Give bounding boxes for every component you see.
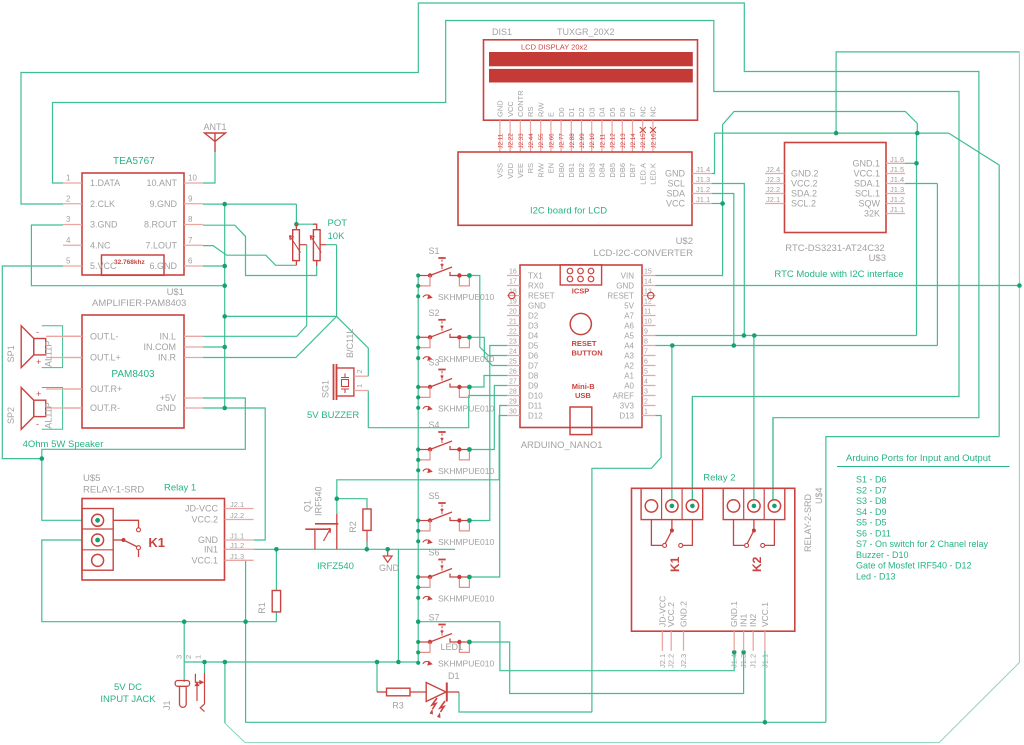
pin 14 LCD stub xyxy=(632,120,634,152)
wire RTC GND.1 link xyxy=(905,162,917,164)
pin SCL I2C board xyxy=(692,183,712,185)
relay2 K1 NO contact xyxy=(683,520,693,546)
pin OUT.R+ PAM8403 xyxy=(63,388,82,390)
svg-text:J1.1: J1.1 xyxy=(890,205,904,214)
svg-text:J1.4: J1.4 xyxy=(890,175,904,184)
svg-text:GND: GND xyxy=(156,403,177,413)
svg-text:GND.2: GND.2 xyxy=(791,169,819,179)
svg-text:32K: 32K xyxy=(864,209,880,219)
LED light arrows xyxy=(432,698,445,712)
wire R1 bottom xyxy=(275,612,277,622)
svg-text:SCL.1: SCL.1 xyxy=(855,189,880,199)
wire TEA pin10 to antenna ANT1 xyxy=(203,152,215,183)
pin 4 TEA5767 xyxy=(63,244,82,246)
bus junctions S5 xyxy=(416,518,420,522)
switch S5 lever xyxy=(430,512,452,521)
svg-text:RELAY-1-SRD: RELAY-1-SRD xyxy=(83,485,144,496)
pin wires SP2 xyxy=(46,388,82,390)
ground symbol GND xyxy=(387,549,389,556)
svg-text:17: 17 xyxy=(509,279,517,286)
svg-text:7: 7 xyxy=(644,349,648,356)
svg-text:5.VCC: 5.VCC xyxy=(90,261,117,271)
svg-text:RS: RS xyxy=(526,107,535,117)
svg-text:20: 20 xyxy=(509,309,517,316)
ICSP header xyxy=(560,265,601,285)
switch S5 right bracket pin xyxy=(459,523,469,531)
svg-text:3: 3 xyxy=(644,389,648,396)
wire relay2 K2 right terminal riser xyxy=(772,418,774,501)
svg-text:GND.1: GND.1 xyxy=(852,158,880,168)
pin JD-VCC relay1 xyxy=(225,508,254,510)
pin OUT.L+ PAM8403 xyxy=(63,357,82,359)
svg-text:GND: GND xyxy=(616,281,634,290)
svg-text:4Ohm 5W Speaker: 4Ohm 5W Speaker xyxy=(23,439,104,450)
svg-text:A2: A2 xyxy=(624,361,634,370)
wire POT top link xyxy=(296,223,313,225)
wire Arduino GND line xyxy=(656,285,1020,287)
svg-text:J1.6: J1.6 xyxy=(890,155,904,164)
switch S1 right bracket pin xyxy=(459,278,469,286)
pin +5V PAM8403 xyxy=(184,397,203,399)
pin 8 TEA5767 xyxy=(184,224,203,226)
pin JD-VCC relay2 xyxy=(661,631,663,651)
svg-text:Relay 2: Relay 2 xyxy=(703,473,735,484)
pin 1 Arduino D13 xyxy=(642,415,656,417)
svg-text:U$5: U$5 xyxy=(83,473,100,484)
svg-text:R1: R1 xyxy=(257,602,267,614)
potentiometer POT2 body xyxy=(313,230,320,261)
switch S7 lever xyxy=(430,634,452,643)
svg-text:RX0: RX0 xyxy=(528,281,544,290)
svg-text:RS: RS xyxy=(526,163,535,173)
pin 10 TEA5767 xyxy=(184,182,203,184)
svg-text:D7: D7 xyxy=(528,361,539,370)
svg-text:D3: D3 xyxy=(587,107,596,117)
svg-text:A3: A3 xyxy=(624,351,634,360)
reset pin circle left xyxy=(509,292,515,298)
svg-text:25: 25 xyxy=(509,359,517,366)
switch S5 contact dot xyxy=(467,518,472,523)
svg-text:RELAY-2-SRD: RELAY-2-SRD xyxy=(803,493,813,552)
relay2 K1 lever xyxy=(665,531,672,544)
wire MOSFET drain node xyxy=(337,416,507,515)
svg-text:19: 19 xyxy=(509,299,517,306)
svg-text:3V3: 3V3 xyxy=(620,401,635,410)
switch S3 right bracket pin xyxy=(459,389,469,397)
pin 18 Arduino RESET xyxy=(507,295,520,297)
pin 13 LCD stub xyxy=(621,120,623,152)
svg-text:IRF540: IRF540 xyxy=(314,486,324,516)
pin OUT.R- PAM8403 xyxy=(63,407,82,409)
wire GND top loop xyxy=(715,132,949,134)
bus junctions S7 xyxy=(416,640,420,644)
switch S7 right contact xyxy=(450,639,459,643)
svg-text:OUT.L+: OUT.L+ xyxy=(90,353,121,363)
svg-text:RTC Module with I2C interface: RTC Module with I2C interface xyxy=(774,269,903,280)
pin IN2 relay2 xyxy=(752,631,754,651)
svg-text:S1: S1 xyxy=(429,246,440,256)
pin 17 Arduino RX0 xyxy=(507,285,520,287)
LCD bar row 1 xyxy=(489,52,693,66)
relay1 contact lever xyxy=(124,540,137,547)
pin 25 Arduino D7 xyxy=(507,365,520,367)
svg-text:12: 12 xyxy=(644,299,652,306)
switch S2 left pad xyxy=(428,335,432,339)
switch S5 left pad xyxy=(428,518,432,522)
svg-text:Led - D13: Led - D13 xyxy=(856,571,896,581)
wire S7 to relay2 IN xyxy=(469,642,743,694)
switch S6 left pad xyxy=(428,575,432,579)
pin 29 Arduino D11 xyxy=(507,405,520,407)
amplifier IC PAM8403 body xyxy=(82,315,184,428)
svg-text:J2.3: J2.3 xyxy=(766,175,780,184)
svg-text:DIS1: DIS1 xyxy=(492,27,512,37)
switch S1 right contact xyxy=(450,272,459,276)
svg-text:LCD-I2C-CONVERTER: LCD-I2C-CONVERTER xyxy=(593,248,693,259)
switch S6 actuator xyxy=(438,559,445,561)
pin 3 TEA5767 xyxy=(63,224,82,226)
svg-text:SKHMPUE010: SKHMPUE010 xyxy=(438,537,494,547)
pin 2 TEA5767 xyxy=(63,203,82,205)
svg-text:Q1: Q1 xyxy=(303,500,313,512)
svg-text:16: 16 xyxy=(509,269,517,276)
svg-text:Gate of Mosfet IRF540 - D12: Gate of Mosfet IRF540 - D12 xyxy=(856,561,972,571)
connector J1 DC jack barrel xyxy=(175,681,189,687)
switch S3 left bracket pin xyxy=(418,387,430,397)
pin 4 LCD stub xyxy=(530,120,532,152)
svg-text:Relay 1: Relay 1 xyxy=(164,483,196,494)
svg-text:2: 2 xyxy=(66,194,71,203)
relay2 K1 NC contact xyxy=(651,520,662,546)
pin 24 Arduino D6 xyxy=(507,355,520,357)
svg-text:VDD: VDD xyxy=(506,162,515,178)
mount symbol S1 xyxy=(423,295,429,297)
wire R1 top from IN1 line xyxy=(275,549,277,590)
pin GND.1 RTC xyxy=(886,162,905,164)
svg-text:A7: A7 xyxy=(624,311,634,320)
svg-text:J2.33: J2.33 xyxy=(518,133,525,149)
potentiometer POT1 body xyxy=(293,230,300,261)
svg-text:J2.22: J2.22 xyxy=(508,133,515,149)
svg-text:RESET: RESET xyxy=(528,291,555,300)
svg-text:SKHMPUE010: SKHMPUE010 xyxy=(438,292,494,302)
svg-text:J1.2: J1.2 xyxy=(890,195,904,204)
pin 5 TEA5767 xyxy=(63,265,82,267)
pin 2 Arduino 3V3 xyxy=(642,405,656,407)
svg-text:J2.3: J2.3 xyxy=(679,654,688,668)
pin GND.1 relay2 xyxy=(733,631,735,651)
pin 2 buzzer xyxy=(354,375,368,377)
svg-text:J1.1: J1.1 xyxy=(696,195,710,204)
pin VCC.1 relay1 xyxy=(225,559,254,561)
MCU ARDUINO_NANO1 body xyxy=(520,265,642,428)
svg-text:SKHMPUE010: SKHMPUE010 xyxy=(438,466,494,476)
svg-text:24: 24 xyxy=(509,349,517,356)
relay1 terminal 2 xyxy=(92,534,104,546)
svg-text:TUXGR_20X2: TUXGR_20X2 xyxy=(557,27,615,37)
pin 11 Arduino A7 xyxy=(642,315,656,317)
svg-text:PAM8403: PAM8403 xyxy=(111,369,155,380)
wire S4 to Arduino D9 xyxy=(469,386,507,450)
svg-text:GND: GND xyxy=(528,301,546,310)
wire jack pin3 riser xyxy=(183,622,185,682)
svg-text:RESET: RESET xyxy=(572,339,597,348)
svg-text:4: 4 xyxy=(66,236,71,245)
wire GND upper link xyxy=(836,52,1019,133)
wire POT1 top drop xyxy=(295,204,297,224)
svg-text:DB3: DB3 xyxy=(587,163,596,178)
switch S6 contact dot xyxy=(467,575,472,580)
svg-text:S4 - D9: S4 - D9 xyxy=(856,507,887,517)
wire S6 to Arduino D11 xyxy=(469,406,507,578)
svg-text:3.GND: 3.GND xyxy=(90,220,118,230)
switch S1 contact dot xyxy=(467,273,472,278)
wire gate/IN1 line xyxy=(254,548,455,550)
switch S1 left pad xyxy=(428,273,432,277)
wire SCL riser to top node xyxy=(916,133,918,335)
svg-text:SKHMPUE010: SKHMPUE010 xyxy=(438,594,494,604)
pin SCL.1 RTC xyxy=(886,193,905,195)
pin 10 LCD stub xyxy=(591,120,593,152)
svg-text:K2: K2 xyxy=(750,556,764,572)
svg-text:5V BUZZER: 5V BUZZER xyxy=(307,410,359,421)
svg-text:J1.1: J1.1 xyxy=(230,532,244,541)
switch S4 actuator xyxy=(438,431,445,433)
pin IN1 relay2 xyxy=(743,631,745,651)
svg-text:S3 - D8: S3 - D8 xyxy=(856,496,887,506)
relay2 terminal xyxy=(686,500,698,512)
svg-text:DB4: DB4 xyxy=(598,163,607,178)
svg-text:J2.55: J2.55 xyxy=(538,133,545,149)
svg-text:1: 1 xyxy=(644,409,648,416)
switch S3 left pad xyxy=(428,385,432,389)
svg-text:J2.13: J2.13 xyxy=(620,133,627,149)
svg-text:30: 30 xyxy=(509,409,517,416)
svg-text:R/W: R/W xyxy=(536,162,545,178)
pin SDA.1 RTC xyxy=(886,183,905,185)
switch S3 right contact xyxy=(450,384,459,388)
pin SDA.2 RTC xyxy=(765,193,785,195)
switch S4 right contact xyxy=(450,446,459,450)
svg-text:TX1: TX1 xyxy=(528,271,543,280)
svg-text:D3: D3 xyxy=(528,321,539,330)
pin 27 Arduino D9 xyxy=(507,385,520,387)
wire relay2 K2 mid terminal riser xyxy=(753,336,755,501)
svg-text:J2.2: J2.2 xyxy=(230,511,244,520)
RTC module U$3 body xyxy=(785,143,887,233)
wire S5 to Arduino D5 xyxy=(469,346,507,521)
speaker SP1 cone xyxy=(21,326,34,368)
pin 3 Arduino AREF xyxy=(642,395,656,397)
pin 13 Arduino RESET xyxy=(642,295,656,297)
wire relay2 K1 right terminal riser xyxy=(691,397,693,501)
svg-text:26: 26 xyxy=(509,369,517,376)
wire gate line drop xyxy=(397,549,399,662)
svg-text:K1: K1 xyxy=(148,535,165,550)
svg-text:8.ROUT: 8.ROUT xyxy=(144,220,178,230)
svg-text:EN: EN xyxy=(547,163,556,173)
svg-text:VCC: VCC xyxy=(666,199,686,209)
svg-text:-: - xyxy=(36,327,39,337)
svg-text:D8: D8 xyxy=(528,371,539,380)
svg-text:10: 10 xyxy=(644,319,652,326)
svg-text:J2.1: J2.1 xyxy=(230,500,244,509)
pin 5 Arduino A1 xyxy=(642,375,656,377)
svg-text:D1: D1 xyxy=(448,671,460,681)
svg-text:SG1: SG1 xyxy=(321,380,331,398)
svg-text:D0: D0 xyxy=(557,107,566,117)
switch S3 left stub xyxy=(418,386,428,388)
svg-text:21: 21 xyxy=(509,319,517,326)
wire POT2 wiper down to PAM IN.R xyxy=(326,244,337,246)
switch S2 lever xyxy=(430,329,452,338)
resistor R3 xyxy=(387,688,411,696)
svg-text:VSS: VSS xyxy=(496,163,505,178)
wire I2C VCC link xyxy=(712,203,723,205)
pin GND.2 RTC xyxy=(765,173,785,175)
svg-text:S2 - D7: S2 - D7 xyxy=(856,485,887,495)
svg-text:POT: POT xyxy=(328,218,348,229)
switch S1 left stub xyxy=(418,275,428,277)
svg-text:DB2: DB2 xyxy=(577,163,586,178)
pin VCC.1 RTC xyxy=(886,173,905,175)
wire TEA pin9 to POT tops xyxy=(203,203,296,205)
svg-text:3: 3 xyxy=(66,215,71,224)
switch S2 right bracket pin xyxy=(459,339,469,347)
svg-text:VCC.2: VCC.2 xyxy=(666,602,676,627)
wire buzzer pin1 to D10 xyxy=(368,391,507,428)
svg-text:GND.2: GND.2 xyxy=(679,601,689,627)
pin 20 Arduino D2 xyxy=(507,315,520,317)
svg-text:S5 - D5: S5 - D5 xyxy=(856,518,887,528)
svg-text:1: 1 xyxy=(355,384,364,388)
svg-text:S3: S3 xyxy=(429,358,440,368)
svg-text:SP1: SP1 xyxy=(6,345,16,362)
potentiometer POT1 wiper xyxy=(299,244,306,246)
svg-text:Buzzer - D10: Buzzer - D10 xyxy=(856,550,909,560)
relay1 NO contact xyxy=(138,550,140,557)
svg-text:10: 10 xyxy=(188,174,197,183)
junction dots xyxy=(222,202,227,207)
pin 21 Arduino D3 xyxy=(507,325,520,327)
svg-text:VCC.2: VCC.2 xyxy=(791,179,818,189)
relay2 terminal xyxy=(748,500,760,512)
svg-text:U$1: U$1 xyxy=(167,287,184,298)
relay2 terminal xyxy=(666,500,678,512)
svg-text:D11: D11 xyxy=(528,401,543,410)
pin GND PAM8403 xyxy=(184,407,203,409)
svg-text:6: 6 xyxy=(644,359,648,366)
pin 22 Arduino D4 xyxy=(507,335,520,337)
svg-text:LED1: LED1 xyxy=(441,642,464,652)
relay2 K2 NO contact xyxy=(765,520,775,546)
svg-text:5: 5 xyxy=(66,257,71,266)
wire 5V distribution xyxy=(826,437,999,723)
svg-text:IN1: IN1 xyxy=(739,614,749,628)
switch S2 contact dot xyxy=(467,335,472,340)
wire drain node to R2 xyxy=(337,499,367,509)
switch S6 lever xyxy=(430,569,452,578)
svg-text:+: + xyxy=(36,389,41,399)
svg-text:J1.3: J1.3 xyxy=(230,552,244,561)
wire Arduino VIN riser xyxy=(656,112,918,276)
svg-text:VCC: VCC xyxy=(506,101,515,117)
module I2C board box xyxy=(458,152,692,225)
svg-text:J2.10: J2.10 xyxy=(589,133,596,149)
svg-text:A6: A6 xyxy=(624,321,634,330)
svg-text:S4: S4 xyxy=(429,420,440,430)
svg-text:A1: A1 xyxy=(624,371,634,380)
resistor R1 xyxy=(272,591,280,612)
wire Arduino A5/SCL line xyxy=(656,335,917,337)
relay1 terminal 3 xyxy=(92,554,104,566)
svg-text:22: 22 xyxy=(509,329,517,336)
svg-text:VEE: VEE xyxy=(516,163,525,178)
svg-text:27: 27 xyxy=(509,379,517,386)
pin 1 LCD stub xyxy=(499,120,501,152)
svg-text:RESET: RESET xyxy=(607,291,634,300)
svg-text:J2.2: J2.2 xyxy=(667,654,676,668)
svg-text:J1.3: J1.3 xyxy=(739,654,748,668)
svg-text:S1 - D6: S1 - D6 xyxy=(856,475,887,485)
switch S5 right contact xyxy=(450,517,459,521)
svg-text:VCC.1: VCC.1 xyxy=(760,602,770,627)
bus junctions S6 xyxy=(416,575,420,579)
svg-text:J2.77: J2.77 xyxy=(559,133,566,149)
svg-text:J1.4: J1.4 xyxy=(696,165,710,174)
relay2 K2 NC contact xyxy=(734,520,745,546)
pin 5 LCD stub xyxy=(540,120,542,152)
wire LED cathode down xyxy=(459,692,592,712)
svg-text:J2.44: J2.44 xyxy=(528,133,535,149)
switch S2 left bracket pin xyxy=(418,337,430,347)
svg-text:TEA5767: TEA5767 xyxy=(113,156,155,167)
svg-text:ARDUINO_NANO1: ARDUINO_NANO1 xyxy=(521,440,603,451)
no-connect marks xyxy=(640,127,656,133)
svg-text:D10: D10 xyxy=(528,391,543,400)
switch S7 left pad xyxy=(428,640,432,644)
svg-text:J1.3: J1.3 xyxy=(890,185,904,194)
switch S1 lever xyxy=(430,267,452,276)
mount symbol S4 xyxy=(423,469,429,471)
wire bus tap to relay2 GND.1 xyxy=(418,622,734,671)
svg-text:NC: NC xyxy=(649,106,658,117)
svg-text:J1.4: J1.4 xyxy=(730,654,739,668)
svg-text:D2: D2 xyxy=(528,311,539,320)
switch S4 left stub xyxy=(418,449,428,451)
wire Arduino D13 to LED line xyxy=(592,416,661,713)
pin 14 Arduino GND xyxy=(642,285,656,287)
pin 11 LCD stub xyxy=(601,120,603,152)
svg-text:SCL.2: SCL.2 xyxy=(791,199,816,209)
svg-text:ICSP: ICSP xyxy=(572,287,590,296)
svg-text:U$3: U$3 xyxy=(869,253,886,264)
svg-text:1.DATA: 1.DATA xyxy=(90,178,120,188)
relay1 NC contact xyxy=(113,520,138,527)
svg-text:DB7: DB7 xyxy=(628,163,637,178)
switch S2 actuator xyxy=(438,319,445,321)
switch S4 left bracket pin xyxy=(418,450,430,460)
switch S4 left pad xyxy=(428,447,432,451)
relay2 K2 common xyxy=(753,520,755,529)
switch S1 actuator xyxy=(438,257,445,259)
svg-text:SKHMPUE010: SKHMPUE010 xyxy=(438,354,494,364)
svg-text:DB5: DB5 xyxy=(608,163,617,178)
svg-text:10.ANT: 10.ANT xyxy=(146,178,177,188)
wire Arduino A4/SDA line xyxy=(656,345,938,347)
crystal 32.768khz box xyxy=(102,255,165,275)
speaker SP2 cone xyxy=(21,388,34,430)
